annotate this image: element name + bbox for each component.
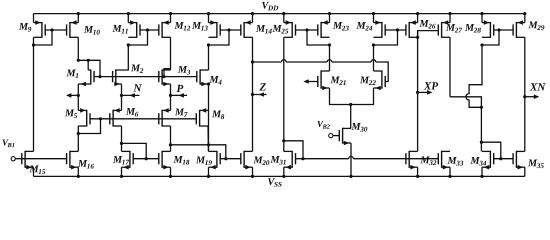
- M9 M10 gate wire: [45, 29, 66, 31]
- VSS power rail: [34, 175, 525, 177]
- wire M6 drain to M17 drain: [121, 126, 123, 151]
- junction node P: [169, 94, 172, 97]
- junction on VSS rail: [416, 175, 419, 178]
- transistor M16: [69, 151, 71, 168]
- transistor M4: [199, 69, 201, 84]
- transistor M22: [381, 70, 383, 88]
- M33 label: [447, 157, 456, 164]
- M5 label: [65, 110, 74, 117]
- M28 diode connection wire: [482, 30, 499, 45]
- M34 label: [470, 157, 479, 164]
- junction node XN: [523, 95, 526, 98]
- transistor M12: [161, 22, 163, 38]
- junction M1 M2 gate bus: [98, 75, 101, 78]
- M20 label: [253, 157, 262, 164]
- M19 label: [196, 157, 205, 164]
- transistor M7: [161, 110, 163, 127]
- M35 source wire: [524, 167, 526, 176]
- M27 source wire: [449, 14, 451, 23]
- transistor M3: [161, 69, 163, 84]
- wire M27 drain down: [449, 37, 451, 97]
- M31 label: [270, 156, 279, 163]
- wire node N to M6 source: [121, 95, 123, 110]
- M4 source wire to M13 drain: [208, 45, 210, 70]
- node XP stub: [418, 91, 432, 93]
- M9 label: [19, 23, 28, 30]
- M4 drain wire down: [208, 84, 210, 151]
- wire M30 source to VSS: [350, 143, 352, 176]
- transistor M11: [136, 22, 138, 38]
- M28 drain jog wire: [466, 45, 482, 107]
- VB1 gate bus: [22, 158, 67, 160]
- wire M7 drain down: [170, 126, 172, 151]
- M14 label: [256, 25, 265, 32]
- junction M9 drain node: [32, 43, 35, 46]
- transistor M6: [112, 110, 114, 127]
- M3 label: [178, 66, 187, 73]
- M23 label: [333, 22, 342, 29]
- M4 label: [209, 76, 218, 83]
- junction on VSS rail: [207, 175, 210, 178]
- M32 label: [420, 157, 429, 164]
- M34 gate riser wire: [481, 142, 500, 159]
- junction gate bus riser: [162, 75, 165, 78]
- junction M13 gate-drain: [227, 28, 230, 31]
- wire M10 drain down: [77, 37, 79, 60]
- junction M11 drain node: [127, 43, 130, 46]
- transistor M25: [291, 22, 293, 38]
- junction on VSS rail: [448, 175, 451, 178]
- M32 M33 gate wire: [406, 158, 438, 160]
- M33 source wire: [449, 167, 451, 176]
- M27 label: [446, 24, 455, 31]
- transistor M26: [408, 22, 410, 38]
- M32 source wire: [417, 167, 419, 176]
- junction tail node: [349, 103, 352, 106]
- transistor M28: [489, 22, 491, 38]
- transistor M15: [24, 151, 26, 168]
- transistor M23: [320, 22, 322, 38]
- M28 M29 gate wire: [494, 29, 513, 31]
- VDD power rail: [34, 13, 525, 15]
- junction on VDD rail: [372, 12, 375, 15]
- node N label: [133, 84, 141, 91]
- M17 label: [113, 156, 122, 163]
- M8 label: [212, 111, 221, 118]
- M29 label: [528, 22, 537, 29]
- M23 diode connection wire: [307, 30, 330, 45]
- wire tail node to M30 drain: [350, 105, 352, 129]
- M3 drain wire to node P: [170, 84, 172, 95]
- junction node Z: [251, 93, 254, 96]
- transistor M27: [441, 22, 443, 38]
- gate bus M5-M8: [90, 118, 196, 120]
- junction M11 gate-drain: [146, 28, 149, 31]
- node Z stub: [253, 94, 267, 96]
- M10 label: [84, 26, 93, 33]
- M3 source wire to M12 drain: [170, 37, 172, 70]
- M19 source wire: [208, 167, 210, 176]
- M18 source wire: [170, 167, 172, 176]
- M27 gate wire to cascode node: [418, 31, 439, 38]
- M18 label: [173, 156, 182, 163]
- M26 label: [419, 20, 428, 27]
- transistor M35: [515, 151, 517, 168]
- junction on VSS rail: [251, 175, 254, 178]
- M30 label: [351, 123, 360, 130]
- junction M10 drain: [77, 59, 80, 62]
- VSS label: [268, 178, 275, 185]
- transistor M34: [489, 151, 491, 168]
- junction M1 source riser: [87, 59, 90, 62]
- M17 M18 gate wire: [133, 158, 159, 160]
- junction M28 drain node: [480, 43, 483, 46]
- junction on VDD rail: [77, 12, 80, 15]
- M19 M20 gate riser wire: [171, 145, 226, 159]
- M27 drain wire to floating node: [450, 97, 481, 152]
- M6 label: [126, 108, 135, 115]
- M1 label: [66, 70, 75, 77]
- junction M4 drain: [207, 82, 210, 85]
- junction on VDD rail: [127, 12, 130, 15]
- M11 label: [112, 25, 121, 32]
- junction on VDD rail: [480, 12, 483, 15]
- transistor M30: [342, 128, 344, 144]
- M20 source wire: [252, 167, 254, 176]
- transistor M29: [515, 22, 517, 38]
- M21 label: [330, 77, 339, 84]
- M13 diode connection wire: [209, 30, 230, 45]
- M1 source wire: [87, 60, 89, 70]
- M9 diode connection wire: [34, 30, 53, 45]
- junction M34 riser: [499, 157, 502, 160]
- junction on VDD rail: [448, 12, 451, 15]
- transistor M10: [69, 22, 71, 38]
- junction input node: [77, 94, 80, 97]
- junction node N: [120, 94, 123, 97]
- VB2 label: [318, 121, 324, 127]
- M14 source wire: [252, 14, 254, 23]
- wire M5 drain to M16 drain: [77, 126, 79, 151]
- transistor M24: [381, 22, 383, 38]
- M3 gate node riser: [164, 69, 171, 77]
- M21 gate arrow terminal: [305, 81, 318, 83]
- M13 M14 gate wire: [220, 29, 241, 31]
- transistor M33: [441, 151, 443, 168]
- transistor M2: [115, 69, 117, 84]
- M25 source wire: [283, 14, 285, 23]
- wire node P to M7 source: [170, 95, 172, 110]
- junction on VDD rail: [523, 12, 526, 15]
- transistor M18: [161, 151, 163, 168]
- wire M23 drain to M21 source: [329, 45, 331, 71]
- M16 label: [78, 160, 87, 167]
- junction M5 drain: [77, 132, 80, 135]
- M35 label: [528, 160, 537, 167]
- M13 label: [192, 22, 201, 29]
- transistor M5: [86, 110, 88, 127]
- wire M24 drain to M22 source: [373, 45, 375, 71]
- M31 source wire: [283, 167, 285, 176]
- node XP label: [424, 82, 432, 89]
- junction on VDD rail: [416, 12, 419, 15]
- M28 source wire: [481, 14, 483, 23]
- transistor M19: [216, 151, 218, 168]
- M2 drain wire to node N: [121, 84, 123, 95]
- junction M31 gate riser: [301, 157, 304, 160]
- junction M17 riser: [145, 157, 148, 160]
- M10 source wire: [77, 14, 79, 23]
- M24 label: [356, 22, 365, 29]
- VB1 terminal: [11, 157, 15, 161]
- M11 diode connection wire: [128, 30, 147, 45]
- junction on VSS rail: [282, 175, 285, 178]
- M21 M22 source U wire: [330, 88, 374, 105]
- M23 source wire: [329, 14, 331, 23]
- junction floating node: [480, 106, 483, 109]
- junction on VSS rail: [169, 175, 172, 178]
- M24 M26 gate wire: [385, 29, 406, 31]
- wire Z to M22 gate: [253, 61, 282, 63]
- M24 diode connection wire: [374, 30, 398, 45]
- M29 source wire: [524, 14, 526, 23]
- node N stub: [122, 94, 140, 96]
- input arrow terminal: [68, 94, 79, 96]
- junction M5 gate bus: [99, 117, 102, 120]
- wire M9 drain to M15 drain: [33, 37, 35, 151]
- transistor M21: [320, 70, 322, 88]
- node wire M10 drain / M1 gate bus: [78, 60, 100, 76]
- junction M7 drain tap: [169, 143, 172, 146]
- junction M19 riser: [224, 157, 227, 160]
- M12 label: [174, 22, 183, 29]
- junction on VSS rail: [349, 175, 352, 178]
- VDD label: [262, 2, 269, 9]
- junction M17 gate tap: [120, 142, 123, 145]
- M31 diode tap wire: [284, 141, 303, 159]
- junction M28 gate-drain: [497, 28, 500, 31]
- M25 M23 gate wire: [296, 29, 318, 31]
- junction on VSS rail: [77, 175, 80, 178]
- transistor M32: [408, 151, 410, 168]
- transistor M31: [291, 151, 293, 168]
- M24 source wire: [373, 14, 375, 23]
- junction M24 gate-drain: [396, 28, 399, 31]
- node XN stub: [525, 96, 538, 98]
- M34 source wire: [481, 167, 483, 176]
- M28 label: [465, 24, 474, 31]
- junction on VDD rail: [328, 12, 331, 15]
- node P stub: [171, 94, 188, 96]
- junction M13 drain node: [207, 43, 210, 46]
- junction M23 drain node: [328, 43, 331, 46]
- node XN label: [530, 83, 538, 90]
- M15 label: [29, 166, 38, 173]
- transistor M9: [41, 22, 43, 38]
- M26 source wire: [417, 14, 419, 23]
- junction M26 drain / M27 gate: [416, 36, 419, 39]
- node P label: [176, 85, 183, 92]
- wire input node to M5 source: [77, 95, 79, 110]
- wire M29 drain to M35 drain: [524, 37, 526, 151]
- M34 M35 gate wire: [494, 158, 513, 160]
- gate bus M1-M4: [94, 76, 197, 78]
- M9 source wire: [33, 14, 35, 23]
- VB1 label: [3, 140, 9, 146]
- M16 source wire: [77, 167, 79, 176]
- M22 label: [360, 77, 369, 84]
- M7 label: [175, 109, 184, 116]
- M1 drain wire to input node: [77, 84, 79, 95]
- junction on VDD rail: [251, 12, 254, 15]
- junction on VDD rail: [207, 12, 210, 15]
- junction on VSS rail: [120, 175, 123, 178]
- M2 label: [131, 65, 140, 72]
- M25 label: [272, 25, 281, 32]
- transistor M17: [129, 151, 131, 168]
- wire M14 drain down (node Z): [252, 37, 254, 151]
- M17 source wire: [121, 167, 123, 176]
- junction M24 drain node: [372, 43, 375, 46]
- wire M8 drain down: [207, 126, 210, 151]
- M17 gate riser wire: [122, 143, 147, 158]
- M11 M12 gate wire: [140, 29, 159, 31]
- M13 source wire: [208, 14, 210, 23]
- M15 source wire: [33, 167, 35, 176]
- junction on VSS rail: [480, 175, 483, 178]
- junction M23 gate-drain: [305, 28, 308, 31]
- node Z label: [259, 83, 265, 90]
- junction M9 gate-drain: [50, 28, 53, 31]
- M11 source wire: [127, 14, 129, 23]
- wire M26 drain / XP column: [417, 31, 419, 152]
- M19 M20 gate wire: [220, 158, 241, 160]
- transistor M20: [243, 151, 245, 168]
- junction Z branch: [251, 60, 254, 63]
- transistor M14: [243, 22, 245, 38]
- junction M34 gate tap: [480, 141, 483, 144]
- junction node XP: [416, 91, 419, 94]
- transistor M13: [216, 22, 218, 38]
- transistor M1: [90, 69, 92, 84]
- M31 M32 gate bus: [296, 158, 349, 160]
- M12 source wire: [170, 14, 172, 23]
- junction M31 drain tap: [282, 139, 285, 142]
- junction on VDD rail: [169, 12, 172, 15]
- junction M13 drain tap: [207, 143, 210, 146]
- M2 source wire to M11 drain: [116, 45, 129, 70]
- junction on VDD rail: [282, 12, 285, 15]
- wire M25 drain to M31 drain: [283, 37, 285, 151]
- M5 diode connection wire: [78, 119, 100, 134]
- VB2 terminal: [329, 134, 333, 138]
- transistor M8: [199, 110, 201, 127]
